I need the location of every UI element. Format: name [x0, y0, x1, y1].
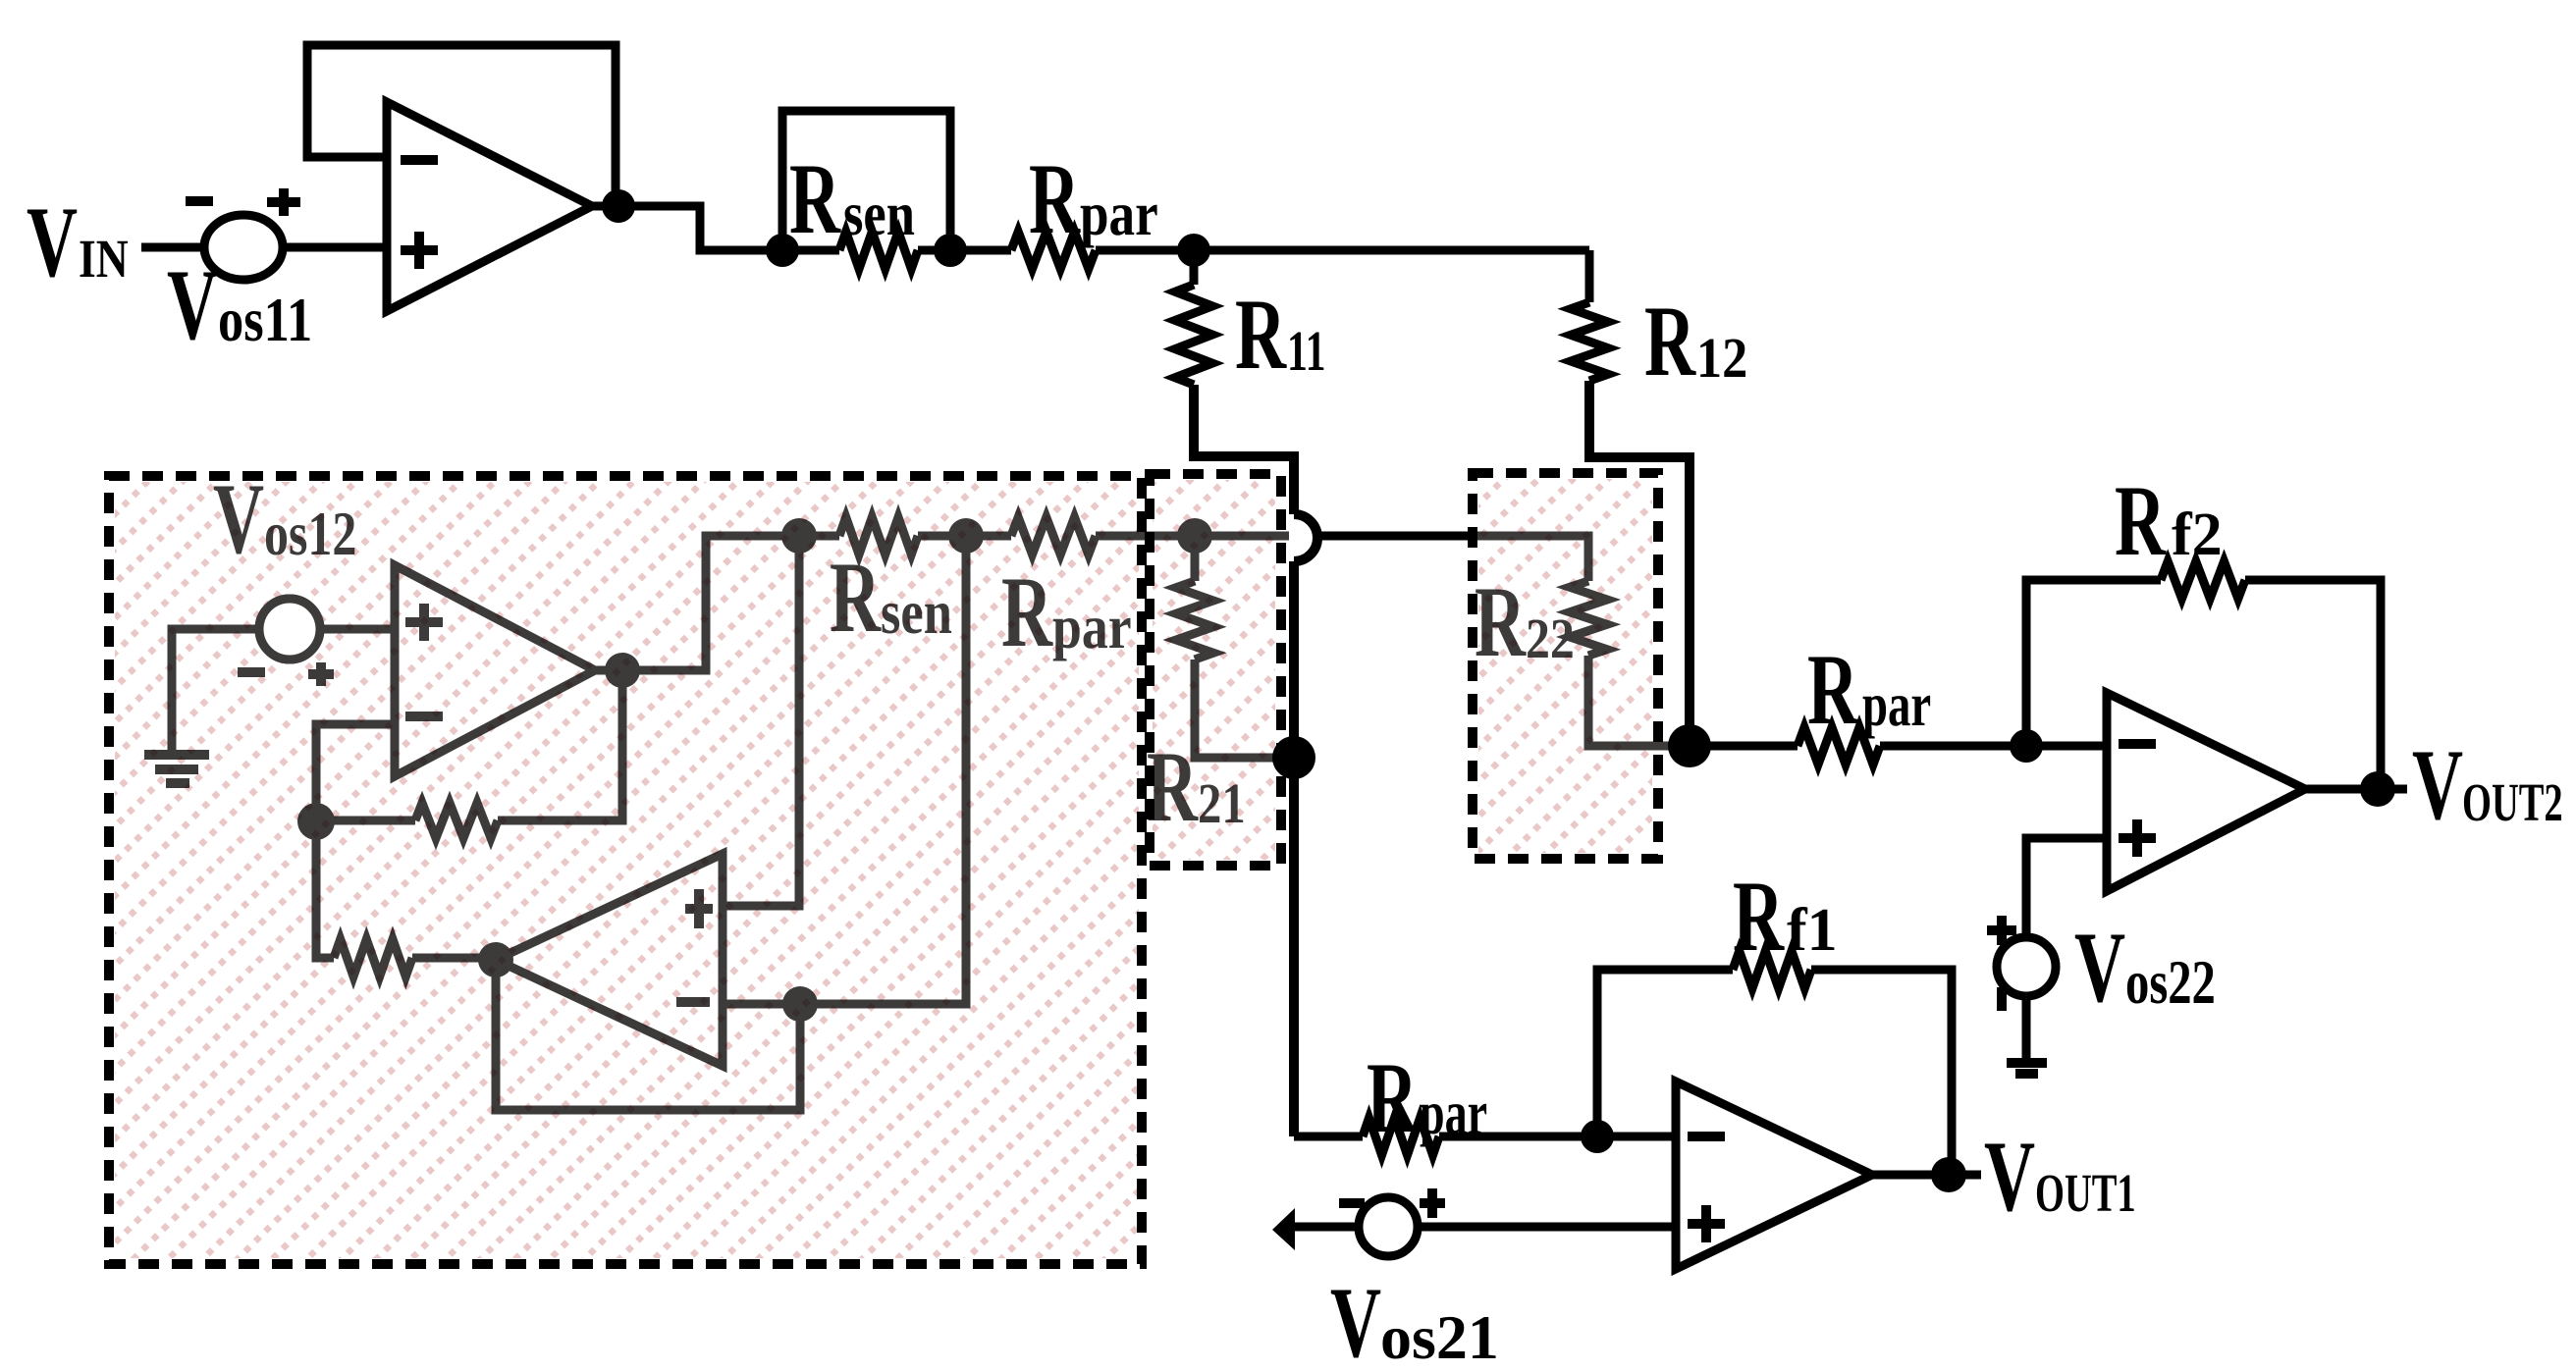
svg-text:V: V	[2412, 730, 2463, 842]
wire R12 bottom jog down to node	[1589, 381, 1690, 746]
resistor Rpar (to U4)	[1690, 742, 1798, 751]
U1 - symbol	[401, 155, 438, 165]
node VOUT2	[2360, 771, 2395, 807]
svg-text:R: R	[2115, 466, 2167, 578]
feedback resistor Rf2 loop	[2026, 580, 2161, 746]
node (Rsen left)	[766, 234, 799, 267]
wire U2 output to in-box Rsen row	[595, 536, 799, 670]
voltage source Vos21	[1359, 1197, 1418, 1256]
resistor R11	[1190, 250, 1199, 285]
wire source to U1 + input	[283, 243, 387, 252]
voltage source Vos12	[259, 599, 320, 660]
svg-text:os21: os21	[1380, 1302, 1499, 1372]
svg-text:R: R	[789, 144, 841, 256]
node A	[297, 803, 335, 840]
wire top row to R12	[1194, 246, 1589, 255]
svg-text:OUT1: OUT1	[2035, 1164, 2136, 1223]
Vos21 polarity +	[1420, 1188, 1445, 1218]
svg-text:R: R	[1733, 862, 1785, 974]
node (U4 inverting input)	[2010, 729, 2043, 763]
svg-text:V: V	[167, 250, 218, 362]
dashed border: R21 box	[1150, 474, 1281, 866]
wire U2 - input to node A	[316, 724, 395, 821]
svg-text:OUT2: OUT2	[2462, 773, 2563, 832]
hatch overlay R22 box	[1478, 479, 1652, 853]
svg-text:R: R	[1807, 635, 1859, 747]
wire vertical down to lower Rpar	[1289, 561, 1299, 1136]
op-amp U2 (upper in-box)	[395, 565, 595, 776]
U4 + symbol	[2119, 819, 2156, 857]
node (Rsen right)	[948, 518, 984, 554]
wire U4 output	[2305, 785, 2407, 794]
resistor node A to U3 apex	[316, 821, 334, 958]
U4 - symbol	[2119, 739, 2156, 749]
wire - riser (U3 inverting input up to Rsen-right node)	[723, 536, 966, 1004]
Vos11 polarity -	[186, 196, 213, 206]
resistor Rsen	[782, 246, 839, 255]
wire U5 output	[1872, 1171, 1981, 1180]
op-amp U1	[387, 102, 592, 311]
hatch overlay R21 box	[1153, 480, 1275, 860]
resistor R12	[1585, 250, 1594, 302]
svg-text:os11: os11	[218, 285, 312, 354]
wire R11 bottom jog	[1194, 385, 1294, 514]
Vos21 polarity -	[1339, 1198, 1365, 1208]
wire U1 output to Rsen	[592, 206, 782, 250]
feedback resistor of U2	[316, 817, 415, 825]
U5 - symbol	[1688, 1132, 1725, 1141]
wire Vos12 to op-amp U2 + input	[320, 625, 395, 634]
wire Vos12 left to ground	[172, 629, 259, 751]
ground (Vos22)	[2007, 1063, 2047, 1074]
U1 output node	[602, 189, 635, 223]
svg-text:R: R	[1029, 144, 1081, 256]
resistor R22 (in its own box)	[1473, 536, 1588, 581]
U1 feedback wire (unity)	[307, 45, 616, 202]
dashed border: correlated block (big box)	[109, 476, 1142, 1264]
wire VIN to source	[141, 243, 204, 252]
U2 output node	[605, 653, 640, 688]
shorting jumper over Rsen	[782, 111, 950, 246]
resistor Rpar	[950, 246, 1011, 255]
wire U4 + input down to Vos22	[2026, 838, 2107, 935]
U3 - symbol	[676, 997, 710, 1007]
ground (Vos12)	[144, 755, 209, 783]
node (U5 inverting input)	[1581, 1120, 1614, 1153]
op-amp U3 (lower in-box, mirrored)	[496, 854, 723, 1066]
node (Rsen left)	[781, 518, 817, 554]
Vos12 polarity -	[238, 667, 265, 677]
svg-text:R: R	[1235, 280, 1287, 392]
U3 apex output node	[478, 942, 513, 977]
svg-text:par: par	[1080, 179, 1158, 248]
svg-text:12: 12	[1696, 326, 1747, 389]
svg-text:V: V	[2074, 913, 2125, 1025]
wire hop over in-box row	[1294, 514, 1317, 561]
wire row from hop to R22 box	[1316, 532, 1473, 541]
node (Rsen right)	[934, 234, 967, 267]
U3 feedback loop wire	[496, 960, 800, 1110]
U2 + symbol	[405, 604, 443, 641]
svg-text:par: par	[1420, 1079, 1487, 1148]
svg-text:IN: IN	[79, 229, 129, 289]
svg-text:sen: sen	[843, 179, 915, 248]
U3 + symbol	[685, 889, 713, 928]
node (R22 bottom junction)	[1668, 724, 1711, 767]
svg-text:par: par	[1862, 670, 1931, 740]
node (U3 inverting input)	[782, 986, 818, 1022]
node (R21 bottom junction)	[1272, 736, 1315, 779]
wire row to R22 (passes under hop)	[1195, 532, 1289, 541]
svg-text:f2: f2	[2172, 501, 2223, 568]
dashed border: R22 box	[1473, 473, 1658, 859]
node VOUT1	[1931, 1157, 1966, 1192]
feedback resistor Rf1 loop	[1597, 970, 1733, 1136]
svg-text:R: R	[1367, 1043, 1419, 1155]
Vos12 polarity +	[308, 662, 334, 686]
Vos22 polarity +	[1987, 916, 2016, 945]
op-amp U5 (VOUT1)	[1676, 1082, 1872, 1269]
svg-text:f1: f1	[1787, 897, 1838, 964]
voltage source Vos11	[204, 215, 283, 280]
resistor Rpar (to U5)	[1294, 1133, 1363, 1141]
arrow terminal (Vos21 left)	[1272, 1208, 1295, 1250]
wire Vos21 to U5 + input	[1418, 1223, 1676, 1232]
svg-text:R: R	[1644, 287, 1696, 398]
svg-text:11: 11	[1287, 319, 1325, 382]
Vos11 polarity +	[267, 188, 300, 216]
op-amp U4 (VOUT2)	[2107, 693, 2305, 891]
wire + riser (U3 noninverting input up to Rsen-left node)	[723, 536, 799, 906]
node (R11 top junction)	[1177, 234, 1210, 267]
svg-text:V: V	[1330, 1268, 1381, 1372]
wire Vos22 to ground	[2022, 996, 2031, 1063]
svg-text:os22: os22	[2125, 948, 2216, 1018]
U5 + symbol	[1688, 1205, 1725, 1242]
hatch overlay big dashed box	[115, 482, 1139, 1258]
resistor R21	[1191, 536, 1200, 581]
svg-text:V: V	[1984, 1122, 2035, 1234]
node (R21 top)	[1177, 518, 1212, 554]
resistor Rpar (in-box)	[966, 532, 1011, 541]
resistor Rsen (in-box)	[799, 532, 839, 541]
wire arrow to Vos21	[1294, 1223, 1359, 1232]
voltage source Vos12 (redraw over hatch)	[259, 599, 320, 660]
U1 + symbol	[401, 232, 438, 269]
voltage source Vos22	[1997, 937, 2056, 996]
svg-text:V: V	[27, 187, 78, 299]
U2 - symbol	[405, 712, 443, 721]
Vos22 polarity -	[1997, 987, 2007, 1011]
